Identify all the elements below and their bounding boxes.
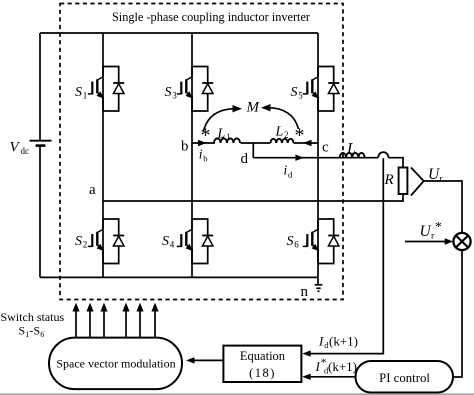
switch-status arrow 3 xyxy=(100,303,107,338)
label ib xyxy=(199,147,208,164)
svg-text:1: 1 xyxy=(226,132,231,142)
transistor S4 (IGBT + diode) xyxy=(177,219,213,264)
transistor S3 (IGBT + diode) xyxy=(177,67,213,112)
wire: leg 2 vertical xyxy=(191,33,193,277)
label Vdc xyxy=(10,140,30,157)
inductor L1 xyxy=(214,138,240,143)
wire hop over current-sense line xyxy=(378,152,388,158)
svg-text:S: S xyxy=(162,234,169,249)
svg-text:i: i xyxy=(284,163,288,178)
label S3 xyxy=(165,85,178,101)
wire: leg 1 vertical xyxy=(102,33,104,277)
svg-text:L: L xyxy=(275,125,284,140)
svg-text:6: 6 xyxy=(294,240,299,250)
svg-text:S: S xyxy=(165,85,172,100)
svg-text:6: 6 xyxy=(40,330,44,339)
svg-text:R: R xyxy=(384,172,394,188)
svg-text:PI control: PI control xyxy=(379,371,430,385)
svg-text:(k+1): (k+1) xyxy=(328,359,357,374)
summing junction (multiplier circle with X) xyxy=(453,233,470,250)
arrow: PI control to Equation block (Id* reference) xyxy=(302,374,355,380)
svg-text:2: 2 xyxy=(83,240,88,250)
voltage probe chevron across R xyxy=(411,168,424,196)
label S4 xyxy=(162,234,175,250)
svg-text:*: * xyxy=(201,125,211,147)
label L2 xyxy=(275,125,289,141)
svg-text:b: b xyxy=(203,154,207,164)
svg-text:d: d xyxy=(241,151,249,167)
label S5 xyxy=(291,85,304,101)
bottom edge artifact line xyxy=(0,393,474,395)
switch-status arrow 6 xyxy=(151,303,158,338)
svg-text:(k+1): (k+1) xyxy=(329,334,358,349)
switch-status arrow 5 xyxy=(136,303,143,338)
svg-text:n: n xyxy=(301,284,309,300)
transistor S5 (IGBT + diode) xyxy=(303,67,339,112)
svg-text:Space vector modulation: Space vector modulation xyxy=(56,357,175,371)
svg-text:L: L xyxy=(217,127,226,142)
svg-text:dc: dc xyxy=(21,146,30,156)
svg-text:Single -phase coupling inducto: Single -phase coupling inductor inverter xyxy=(112,10,310,24)
svg-text:b: b xyxy=(181,139,189,155)
svg-text:c: c xyxy=(322,140,329,156)
svg-text:S: S xyxy=(19,324,26,338)
switch-status arrow 1 xyxy=(72,303,79,338)
arrow: Ur* into summing junction xyxy=(405,238,453,244)
switch-status arrow 2 xyxy=(86,303,93,338)
svg-text:Switch status: Switch status xyxy=(1,310,65,324)
battery Vdc xyxy=(30,33,52,277)
switch-status arrow 4 xyxy=(122,303,129,338)
wire: node d drop and output line with current arrow id xyxy=(253,143,378,161)
svg-text:3: 3 xyxy=(172,91,177,101)
label Ur* reference xyxy=(420,219,443,242)
arrow: Equation block to Space vector modulation xyxy=(186,357,223,363)
svg-text:S: S xyxy=(287,234,294,249)
label Id(k+1) xyxy=(318,334,358,351)
wire: R bottom to node a return line xyxy=(103,194,403,201)
svg-text:(18): (18) xyxy=(249,366,276,380)
transistor S2 (IGBT + diode) xyxy=(88,219,124,264)
svg-text:S: S xyxy=(75,85,82,100)
mutual coupling arrow right xyxy=(261,104,299,129)
label S1 xyxy=(75,85,87,101)
PI control block xyxy=(356,361,454,393)
label S6 xyxy=(287,234,300,250)
label L1 xyxy=(217,127,231,143)
label S2 xyxy=(75,234,87,250)
Equation (18) block xyxy=(223,346,301,382)
svg-text:M: M xyxy=(246,100,261,116)
wire: top DC rail xyxy=(40,32,318,34)
wire: L1 to L2 through node d xyxy=(241,142,271,144)
svg-text:S: S xyxy=(75,234,82,249)
wire: hop to R top corner xyxy=(389,158,404,168)
label Switch status S1-S6 xyxy=(1,310,65,339)
dashed inverter boundary box xyxy=(60,4,343,300)
transistor S1 (IGBT + diode) xyxy=(88,67,124,112)
mutual coupling arrow left xyxy=(204,105,243,131)
wire: probe output to summing junction xyxy=(424,181,462,233)
Space vector modulation block xyxy=(49,338,182,390)
svg-text:5: 5 xyxy=(298,91,303,101)
svg-text:2: 2 xyxy=(284,130,289,140)
inductor L2 xyxy=(271,139,294,143)
svg-text:4: 4 xyxy=(170,240,175,250)
svg-text:-S: -S xyxy=(29,324,40,338)
svg-text:i: i xyxy=(199,147,203,162)
svg-text:I: I xyxy=(315,359,321,374)
resistor R (load) xyxy=(399,168,408,195)
wire: summing junction down to PI control xyxy=(453,250,462,377)
label id xyxy=(284,163,294,180)
svg-text:1: 1 xyxy=(83,91,88,101)
ground symbol at n xyxy=(315,277,323,291)
wire: b to L1 with current arrow ib xyxy=(192,140,215,146)
svg-text:a: a xyxy=(89,182,96,198)
wire: bottom DC rail xyxy=(40,276,318,278)
svg-text:L: L xyxy=(346,141,356,158)
label Equation (18) xyxy=(240,349,286,380)
label Ur xyxy=(428,166,444,185)
current sense line to Equation block (Id measurement) xyxy=(302,158,383,356)
svg-text:I: I xyxy=(318,334,324,349)
inductor L (load) xyxy=(340,153,365,158)
wire: L2 to c with left arrow xyxy=(294,140,319,146)
transistor S6 (IGBT + diode) xyxy=(303,219,339,264)
svg-text:S: S xyxy=(291,85,298,100)
svg-text:*: * xyxy=(435,219,442,234)
label I*d(k+1) xyxy=(315,357,358,376)
svg-text:Equation: Equation xyxy=(240,349,286,363)
wire: leg 3 vertical xyxy=(317,33,319,277)
